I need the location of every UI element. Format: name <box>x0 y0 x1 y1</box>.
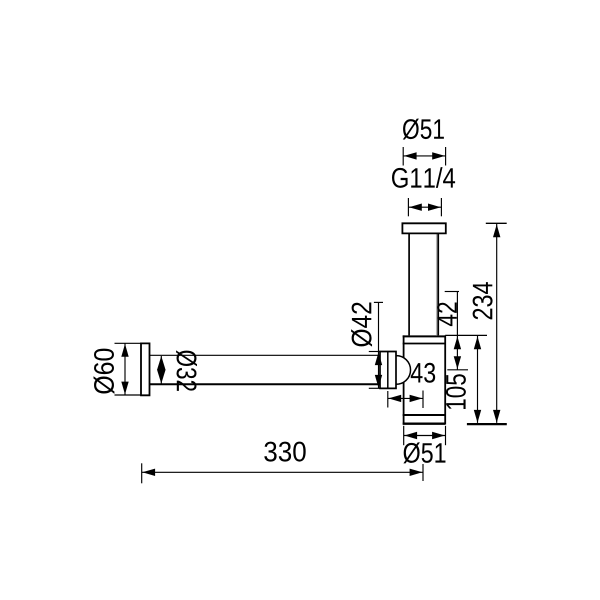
dim 330 - label <box>264 442 305 462</box>
dim 43 - right tick <box>422 391 424 409</box>
dim Ø51 bottom - right arrowhead <box>432 432 445 439</box>
dim 43 - dimension line <box>388 397 423 399</box>
dim G11/4 - left arrowhead <box>409 204 422 211</box>
horizontal pipe top edge <box>150 354 381 356</box>
dim Ø42 - nut bottom extension <box>369 387 380 389</box>
dim Ø51 top - dimension line <box>403 155 445 157</box>
inlet nut divider line <box>387 352 389 389</box>
inlet dome (half-round) <box>396 356 410 385</box>
dim Ø51 bottom - left arrowhead <box>404 432 417 439</box>
dim Ø42 - nut top extension <box>369 351 380 353</box>
trap body top line <box>403 335 446 337</box>
dim Ø42 - dimension line <box>378 302 380 388</box>
dim Ø60 - top tick <box>115 342 142 344</box>
dim G11/4 - right extension line <box>440 198 442 216</box>
dim 234 - lower arrowhead <box>493 410 500 423</box>
dim 330 - left arrowhead <box>142 469 155 476</box>
trap body bottom edge <box>403 423 446 425</box>
dim 42 - label <box>437 302 457 326</box>
dim Ø32 - lower arrowhead <box>157 370 166 384</box>
trap body top cap bottom line <box>403 343 446 345</box>
dim 42 - lower arrowhead <box>454 356 461 369</box>
dim Ø60 - dimension line <box>124 343 126 395</box>
dim 42 - top end tick <box>445 291 459 293</box>
dim Ø51 top - right arrowhead <box>432 152 445 159</box>
dim Ø32 - upper arrowhead <box>157 356 166 370</box>
vertical pipe left edge <box>408 233 410 335</box>
dim 42 - dimension line <box>456 292 458 370</box>
dim Ø51 top - right extension line <box>445 147 447 166</box>
trap body left edge upper <box>403 335 405 357</box>
dim Ø32 - dimension line <box>160 356 162 384</box>
dim Ø51 bottom - dimension line <box>404 435 446 437</box>
dim 234 - bottom shared tick <box>467 423 507 425</box>
inlet nut outline <box>380 352 396 389</box>
dim G11/4 - dimension line <box>408 206 441 208</box>
dim 234 - dimension line <box>496 224 498 423</box>
dim Ø42 - top end tick <box>374 301 383 303</box>
dim 42 - upper arrowhead <box>454 336 461 349</box>
vertical pipe right edge <box>437 233 439 335</box>
dim 234 - top tick <box>486 222 507 224</box>
dim Ø32 - label <box>176 350 197 391</box>
dim Ø51 top - label <box>403 119 444 140</box>
trap body left edge lower <box>403 382 405 424</box>
dim 330 - left extension line <box>141 463 143 483</box>
dim 43 - label <box>411 363 435 383</box>
dim G11/4 - left extension line <box>407 198 409 216</box>
dim 330 - right arrowhead <box>410 469 423 476</box>
dim G11/4 - right arrowhead <box>428 204 441 211</box>
top flange cap <box>402 223 445 233</box>
dim 43 - left extension line <box>387 391 389 408</box>
wall flange (left escutcheon) <box>141 343 150 395</box>
dim Ø51 bottom - left extension line <box>403 426 405 445</box>
trap body bottom band upper line <box>403 414 446 416</box>
dim 42 - pipe centreline tick <box>447 369 468 371</box>
dim 105 - label <box>446 374 466 409</box>
body top extension line to 42/105 dims <box>445 334 487 336</box>
horizontal pipe bottom edge <box>150 383 381 385</box>
dim Ø51 bottom - label <box>403 442 445 463</box>
dim 43 - right arrowhead <box>410 395 423 402</box>
dim 330 - dimension line <box>142 471 423 473</box>
dim G11/4 - label <box>392 167 455 188</box>
dim Ø42 - lower arrowhead <box>375 375 382 388</box>
dim 43 - left arrowhead <box>388 395 401 402</box>
dim Ø60 - bottom tick <box>115 394 142 396</box>
dim Ø42 - upper arrowhead <box>375 352 382 365</box>
dim Ø60 - label <box>94 349 115 394</box>
dim Ø60 - upper arrowhead <box>121 344 128 357</box>
dim Ø51 top - left extension line <box>402 147 404 166</box>
dim Ø42 - label <box>351 303 372 347</box>
dim Ø60 - lower arrowhead <box>121 382 128 395</box>
dim Ø51 bottom - right extension line <box>445 426 447 445</box>
dim 105 - upper arrowhead <box>474 336 481 349</box>
vertical pipe right inner gray line <box>436 234 438 335</box>
dim Ø51 top - left arrowhead <box>404 152 417 159</box>
dim 234 - upper arrowhead <box>493 224 500 237</box>
dim 105 - lower arrowhead <box>474 410 481 423</box>
dim 105 - dimension line <box>477 336 479 423</box>
dim 234 - label <box>473 282 493 319</box>
dim 330 - right tick <box>422 464 424 481</box>
trap body right edge <box>444 335 446 424</box>
